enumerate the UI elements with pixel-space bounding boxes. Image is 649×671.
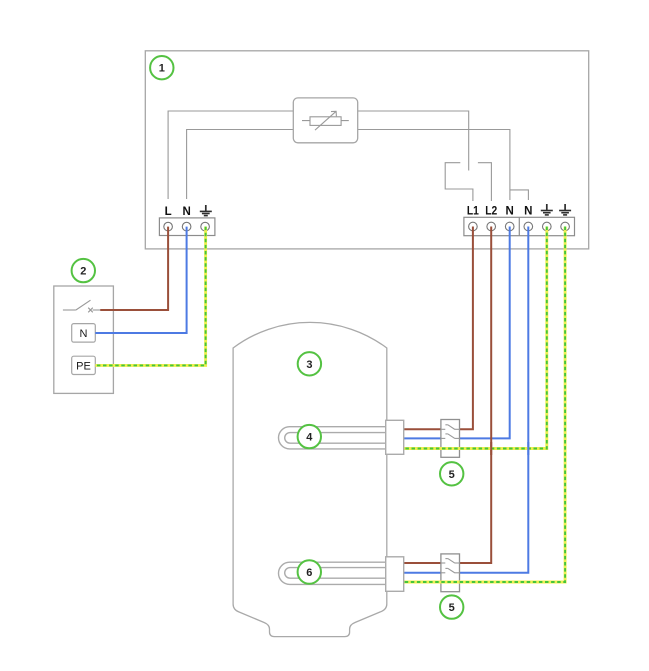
svg-text:PE: PE	[76, 360, 91, 372]
svg-text:2: 2	[80, 266, 86, 278]
svg-text:N: N	[524, 206, 532, 218]
svg-text:L2: L2	[485, 206, 497, 218]
svg-text:6: 6	[306, 567, 312, 579]
svg-text:1: 1	[159, 63, 165, 75]
svg-text:4: 4	[306, 432, 313, 444]
svg-text:3: 3	[306, 359, 312, 371]
svg-text:5: 5	[449, 602, 455, 614]
svg-text:N: N	[506, 206, 514, 218]
svg-text:N: N	[80, 328, 88, 340]
svg-text:5: 5	[449, 469, 455, 481]
svg-text:N: N	[182, 206, 190, 218]
svg-text:L1: L1	[467, 206, 480, 218]
svg-text:L: L	[165, 206, 172, 218]
